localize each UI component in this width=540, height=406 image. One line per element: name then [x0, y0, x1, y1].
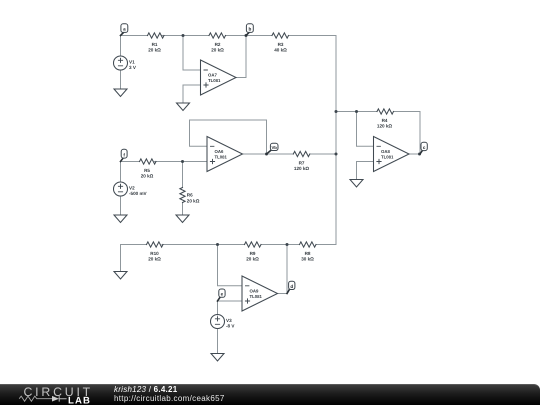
svg-text:OA9: OA9	[250, 288, 259, 293]
svg-text:120 kΩ: 120 kΩ	[377, 124, 392, 129]
junction R4 OA8 minus	[355, 110, 358, 113]
junction R7 bus	[335, 153, 338, 156]
resistor R3	[272, 33, 289, 53]
voltage source V3	[211, 315, 236, 329]
footer metadata text	[114, 385, 225, 404]
wire right bus vertical	[335, 36, 337, 245]
wire bottom left to ground	[120, 245, 122, 272]
svg-text:OA7: OA7	[208, 72, 217, 77]
svg-text:TL081: TL081	[250, 294, 263, 299]
svg-text:-500 mV: -500 mV	[129, 191, 148, 196]
wire branch to OA8 minus	[357, 112, 374, 147]
svg-text:30 kΩ: 30 kΩ	[301, 257, 314, 262]
wire OA8 output	[409, 153, 420, 155]
voltage source V2	[114, 182, 148, 196]
junction R10 R9 OA9	[216, 243, 219, 246]
wire R10 to R9	[162, 244, 245, 246]
wire R3 to bus	[290, 35, 337, 37]
svg-text:OA6: OA6	[215, 149, 224, 154]
node flag f	[121, 149, 128, 161]
wire junction to OA9 minus	[218, 245, 243, 286]
wire V2 to ground	[120, 196, 122, 215]
ground below V1	[114, 89, 127, 97]
wire OA7 plus to ground	[183, 85, 201, 103]
svg-text:a: a	[123, 27, 126, 32]
svg-text:V1: V1	[129, 60, 135, 65]
wire junction to R4	[357, 111, 378, 113]
svg-text:R9: R9	[250, 251, 256, 256]
wire V1 to ground	[120, 70, 122, 89]
svg-text:TL081: TL081	[381, 155, 394, 160]
svg-text:20 kΩ: 20 kΩ	[141, 174, 154, 179]
junction OA8 output R4	[418, 153, 421, 156]
wire OA8 plus to ground	[357, 162, 374, 180]
wire OA9 plus to V3	[218, 301, 243, 315]
svg-text:Vb: Vb	[272, 145, 278, 150]
resistor R7	[293, 151, 310, 171]
wire R7 to bus	[310, 153, 336, 155]
wire node f to R5	[121, 161, 140, 163]
svg-text:R10: R10	[150, 251, 159, 256]
node flag a	[121, 24, 128, 36]
wire R2 to R3	[226, 35, 273, 37]
junction R5 R6 OA6	[181, 160, 184, 163]
svg-text:40 kΩ: 40 kΩ	[274, 48, 287, 53]
svg-text:R7: R7	[299, 160, 305, 165]
junction node b	[245, 34, 248, 37]
wire node a to R1	[121, 35, 148, 37]
ground below R6	[176, 215, 189, 223]
svg-text:TL081: TL081	[215, 155, 228, 160]
op-amp OA9	[242, 276, 278, 311]
wire R1 to R2	[162, 35, 209, 37]
svg-text:d: d	[290, 284, 293, 289]
svg-text:R4: R4	[382, 118, 388, 123]
op-amp OA8	[374, 137, 410, 172]
wire OA7 output to node b	[236, 36, 246, 78]
wire bus to R4 branch	[336, 111, 357, 113]
resistor R6	[180, 188, 200, 204]
node flag c	[420, 142, 427, 154]
wire node f to V2	[120, 162, 122, 183]
op-amp OA6	[207, 137, 243, 172]
ground below OA8 plus	[350, 180, 363, 188]
svg-text:20 kΩ: 20 kΩ	[148, 48, 161, 53]
resistor R5	[140, 159, 157, 179]
wire node a to V1 top	[120, 36, 122, 57]
svg-text:V2: V2	[129, 186, 135, 191]
junction R9 R8 OA9 out	[286, 243, 289, 246]
junction R1 R2 OA7	[182, 34, 185, 37]
wire junction to R6	[182, 162, 184, 188]
wire R4 to OA8 output node	[395, 112, 421, 155]
svg-text:3 V: 3 V	[129, 65, 137, 70]
resistor R4	[377, 109, 394, 129]
svg-text:TL081: TL081	[208, 78, 221, 83]
svg-text:R6: R6	[187, 193, 193, 198]
wire to R10	[121, 244, 147, 246]
CircuitLab logo	[0, 385, 110, 406]
svg-text:R3: R3	[278, 42, 284, 47]
svg-text:20 kΩ: 20 kΩ	[187, 198, 200, 203]
wire node to OA7 minus	[183, 36, 201, 71]
svg-text:20 kΩ: 20 kΩ	[148, 257, 161, 262]
svg-text:c: c	[423, 145, 426, 150]
op-amp OA7	[201, 60, 237, 95]
wire R9 to R8	[261, 244, 300, 246]
resistor R1	[148, 33, 165, 53]
svg-text:OA8: OA8	[381, 149, 390, 154]
resistor R2	[209, 33, 226, 53]
ground below V3	[211, 354, 224, 362]
svg-text:-8 V: -8 V	[226, 323, 235, 328]
svg-text:20 kΩ: 20 kΩ	[211, 48, 224, 53]
svg-text:R2: R2	[215, 42, 221, 47]
resistor R8	[300, 242, 317, 262]
wire V3 to ground	[217, 329, 219, 354]
svg-text:b: b	[248, 27, 251, 32]
ground below V2	[114, 215, 127, 223]
wire OA9 output to junction	[278, 245, 288, 294]
node flag Vb	[267, 143, 279, 154]
wire R6 to ground	[182, 203, 184, 216]
wire OA6 output to R7	[243, 153, 294, 155]
wire R5 to OA6 plus	[155, 161, 208, 163]
node flag b	[246, 24, 253, 36]
node flag e	[218, 289, 226, 301]
junction OA6 output Vb	[265, 153, 268, 156]
svg-text:V3: V3	[226, 318, 232, 323]
svg-text:LAB: LAB	[68, 395, 91, 406]
resistor R9	[245, 242, 262, 262]
svg-text:R8: R8	[305, 251, 311, 256]
resistor R10	[147, 242, 164, 262]
junction bus R4 branch	[335, 110, 338, 113]
voltage source V1	[114, 56, 137, 70]
svg-text:20 kΩ: 20 kΩ	[246, 257, 259, 262]
node flag d	[287, 281, 295, 293]
svg-text:e: e	[221, 292, 224, 297]
wire bus to R8	[316, 244, 336, 246]
svg-text:R5: R5	[144, 168, 150, 173]
wire OA6 feedback loop	[190, 120, 267, 154]
svg-text:120 kΩ: 120 kΩ	[294, 166, 309, 171]
svg-text:R1: R1	[152, 42, 158, 47]
footer bar	[0, 384, 540, 405]
ground below OA7 plus	[177, 103, 190, 111]
ground bottom left	[114, 272, 127, 280]
